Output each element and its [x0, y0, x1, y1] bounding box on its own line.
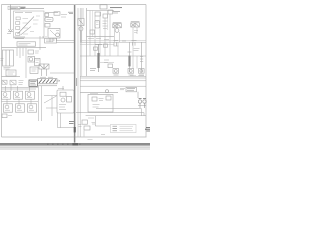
control box A (top-left) — [14, 11, 45, 38]
bus lines above pump grid — [2, 88, 39, 89]
bottom area lines right page — [76, 109, 146, 135]
valve cluster B (top-middle) — [45, 12, 73, 42]
spine dark blob — [74, 127, 76, 132]
pump grid G row 1 small valves — [2, 80, 37, 86]
faint lower paper line — [0, 147, 150, 149]
relay contact block 4 — [16, 33, 20, 36]
solenoid valve pair K1 — [113, 22, 122, 42]
small tag on bus — [120, 88, 125, 89]
pump assembly I (center bottom) — [57, 86, 74, 113]
connector block D (left) — [1, 50, 14, 69]
small fittings in columns — [104, 44, 108, 47]
right page: relief valve with gauge (left edge) — [78, 8, 84, 76]
label dashes — [23, 16, 41, 34]
pump unit G3 — [26, 91, 35, 99]
drain lines below pump assembly — [58, 113, 75, 128]
relay contact block 1 — [16, 17, 20, 20]
page frame bottom border — [2, 136, 147, 138]
caption dashes top-right — [113, 11, 120, 13]
footer page number marks — [47, 143, 81, 145]
valve group E (mid-left) — [28, 50, 40, 73]
right page inner double border — [78, 8, 80, 137]
rotated caption beside spine — [76, 78, 78, 86]
pump unit G6 — [28, 104, 37, 112]
pressure switch box F — [2, 70, 21, 77]
pump unit G1 — [2, 91, 11, 99]
relay contact block 2 — [16, 22, 20, 25]
wires dropping from bus — [17, 48, 26, 78]
jog near spine bottom — [84, 131, 93, 140]
darker blob in band near spine — [72, 143, 78, 146]
solenoid valve pair K2 — [131, 21, 140, 42]
valve pair (mid-center) — [39, 64, 75, 76]
footer band (page edge) — [0, 143, 150, 146]
pressure unit cluster (bottom right corner of page) — [138, 99, 146, 108]
vertical connectors in pump grid — [6, 85, 32, 104]
connecting wires center — [44, 96, 57, 116]
pump unit G5 — [16, 104, 25, 112]
gauge circle — [56, 33, 60, 37]
pump unit G4 — [4, 104, 13, 112]
small cluster Q (bottom center-right) — [78, 118, 95, 130]
title block top-right — [100, 5, 122, 9]
cylinder H (hatched) — [38, 77, 61, 86]
small component bottom-left — [2, 114, 12, 118]
upper-right long bus pair — [80, 76, 146, 87]
accumulator (dark vertical) center-right page — [90, 44, 102, 72]
right page mid bus — [80, 40, 146, 62]
dark manifold block — [29, 80, 37, 86]
diagonal linkage — [18, 17, 35, 35]
bus line — [2, 100, 39, 102]
page frame right border — [145, 5, 147, 138]
filter circuit box O (right page bottom-left) — [80, 90, 118, 112]
relay contact block 3 — [16, 27, 20, 30]
bus pair to spine — [57, 40, 75, 42]
small fittings on mid bus — [114, 40, 140, 50]
pump unit G2 — [14, 91, 23, 99]
wire drop pair from cylinder — [39, 86, 42, 121]
wide terminal box C — [14, 36, 75, 50]
text box (lower right) — [126, 87, 138, 98]
legend table R — [111, 124, 137, 132]
bus line across left page — [2, 47, 47, 49]
column wires right block — [118, 42, 137, 68]
slim component (far right) — [140, 42, 143, 72]
spine (book fold) — [74, 5, 76, 143]
title block top-left — [8, 6, 26, 9]
page frame top border — [2, 4, 147, 6]
right page control cluster J — [87, 8, 115, 76]
column wires — [90, 11, 110, 57]
wire: vertical feed line top-left — [7, 5, 44, 34]
solenoid L (right) — [128, 42, 132, 72]
page frame left border — [1, 5, 3, 138]
bottom row fittings M1..M3 on right page — [80, 69, 146, 77]
part number text S (dark, clipped at edge) — [145, 127, 150, 131]
page background — [0, 0, 150, 150]
below-band paper edge — [0, 146, 150, 150]
